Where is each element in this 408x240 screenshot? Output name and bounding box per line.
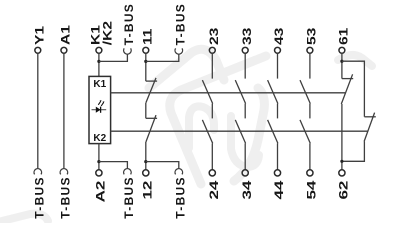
terminal 43 (275, 47, 281, 53)
svg-text:A1: A1 (58, 25, 72, 45)
svg-text:T-BUS: T-BUS (173, 3, 187, 46)
wire K1/K2 to coil box (98, 53, 100, 76)
NO contact K2 43-44 lever (268, 120, 278, 143)
svg-text:62: 62 (338, 181, 351, 200)
svg-text:43: 43 (272, 27, 286, 45)
wire 23 down (211, 53, 213, 78)
terminal 44 (274, 170, 280, 176)
svg-text:24: 24 (208, 180, 221, 200)
svg-text:44: 44 (273, 180, 286, 200)
junction K1/K2 branch (97, 60, 100, 63)
wire 43 down (277, 53, 279, 78)
watermark logo arch 1 (189, 106, 214, 148)
wire NO to 54 (309, 143, 311, 170)
wire Y1 to T-BUS (37, 53, 39, 169)
T-BUS socket below A1 (60, 169, 68, 175)
wire branch to T-BUS bottom 3 (99, 162, 128, 169)
svg-text:/K2: /K2 (100, 21, 114, 46)
svg-text:T-BUS: T-BUS (122, 3, 136, 46)
NC contact K2 61-62 seat (364, 116, 375, 118)
svg-text:34: 34 (241, 180, 254, 200)
wire branch to T-BUS bottom 4 (146, 162, 179, 169)
wire between NC contacts (145, 103, 147, 119)
wire branch to T-BUS top 2 (146, 54, 179, 61)
NO contact K1 53-54 lever (300, 80, 310, 104)
wire 11 down (145, 53, 147, 81)
watermark logo arch 2 (231, 116, 259, 167)
wire NC K2 to 62 (342, 142, 365, 162)
terminal A2 (96, 170, 102, 176)
LED indicator (92, 100, 107, 113)
svg-text:23: 23 (207, 27, 221, 45)
NC contact K1 11-12 seat (146, 80, 157, 82)
svg-text:53: 53 (304, 27, 318, 45)
terminal 53 (307, 47, 313, 53)
wire 61 bypass to K2 contact (342, 61, 365, 117)
NO contact K1 23-24 lever (202, 80, 212, 104)
T-BUS socket below Y1 (34, 169, 42, 175)
wire 53 down (309, 53, 311, 78)
wire NO to 34 (244, 143, 246, 170)
svg-text:33: 33 (240, 27, 254, 45)
junction 61 branch (340, 60, 343, 63)
svg-text:T-BUS: T-BUS (122, 176, 136, 219)
NO contact K1 33-34 lever (235, 80, 245, 104)
terminal 33 (242, 47, 248, 53)
wire NC K1 to 62 (341, 104, 343, 170)
junction 12 branch (144, 160, 147, 163)
wire coil box to A2 (98, 144, 100, 170)
wire branch to T-BUS top 1 (99, 54, 128, 61)
svg-text:12: 12 (142, 181, 155, 200)
terminal 12 (143, 170, 149, 176)
wire 33 down (244, 53, 246, 78)
wire NO to 44 (277, 143, 279, 170)
NO contact K2 23-24 lever (202, 120, 212, 143)
mechanical rail K2 (111, 130, 369, 132)
NC contact K2 11-12 lever (146, 115, 156, 142)
NC contact K1 61-62 lever (341, 74, 352, 104)
wire between NO contacts 23-24 (211, 104, 213, 119)
svg-text:T-BUS: T-BUS (173, 176, 187, 219)
svg-text:K2: K2 (93, 133, 106, 144)
terminal Y1 (35, 47, 41, 53)
wire between NO contacts 53-54 (309, 104, 311, 119)
wire NO to 24 (211, 143, 213, 170)
watermark band bottom-left (2, 214, 48, 221)
svg-text:11: 11 (140, 28, 154, 45)
svg-text:54: 54 (306, 180, 319, 200)
wire 61 down (341, 53, 343, 78)
terminal 62 (339, 170, 345, 176)
mechanical rail K1 (111, 92, 346, 94)
junction 11 branch (144, 60, 147, 63)
terminal A1 (61, 47, 67, 53)
NC contact K1 11-12 lever (146, 78, 156, 103)
NO contact K2 53-54 lever (300, 120, 310, 143)
NO contact K1 43-44 lever (268, 80, 278, 104)
NO contact K2 33-34 lever (235, 120, 245, 143)
watermark logo right edge (234, 88, 264, 181)
svg-text:A2: A2 (95, 181, 108, 203)
terminal 11 (143, 47, 149, 53)
svg-text:Y1: Y1 (32, 26, 46, 45)
NC contact K1 61-62 seat (342, 78, 353, 80)
watermark logo stroke left corner (170, 56, 266, 184)
watermark corner arc top-right (338, 55, 372, 66)
svg-text:T-BUS: T-BUS (59, 176, 73, 219)
terminal 54 (307, 170, 313, 176)
T-BUS socket top 2 (175, 48, 183, 54)
svg-text:K1: K1 (93, 79, 106, 90)
junction 62 (340, 160, 343, 163)
svg-text:61: 61 (336, 27, 350, 45)
wire NC to 12 (145, 142, 147, 170)
junction A2 branch (97, 160, 100, 163)
relay coil box K1 K2 (89, 76, 111, 143)
terminal 61 (339, 47, 345, 53)
T-BUS socket top 1 (124, 48, 132, 54)
NC contact K2 11-12 seat (146, 117, 157, 119)
terminal K1/K2 (96, 47, 102, 53)
terminal 34 (242, 170, 248, 176)
watermark logo stroke top-left (149, 49, 224, 88)
terminal 24 (209, 170, 215, 176)
NC contact K2 61-62 lever (364, 113, 375, 142)
wire between NO contacts 33-34 (244, 104, 246, 119)
T-BUS socket bottom 3 (124, 169, 132, 175)
svg-text:T-BUS: T-BUS (32, 176, 46, 219)
wire A1 to T-BUS (63, 53, 65, 169)
T-BUS socket bottom 4 (175, 169, 183, 175)
terminal 23 (209, 47, 215, 53)
wire between NO contacts 43-44 (277, 104, 279, 119)
